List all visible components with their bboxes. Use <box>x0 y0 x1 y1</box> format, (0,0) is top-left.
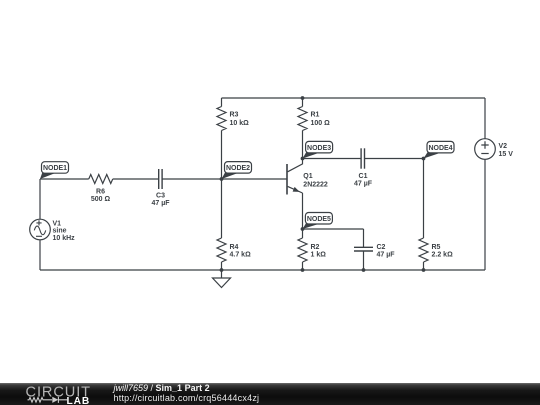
svg-text:2.2 kΩ: 2.2 kΩ <box>432 252 454 259</box>
junction node2 <box>220 177 224 181</box>
wire node3 to C1 <box>303 158 362 160</box>
svg-text:500 Ω: 500 Ω <box>91 196 111 203</box>
node NODE1 box <box>42 162 69 174</box>
svg-text:R2: R2 <box>311 244 320 251</box>
wire input node1 vertical to V1 <box>39 179 41 219</box>
svg-text:4.7 kΩ: 4.7 kΩ <box>230 252 252 259</box>
wire node4 down to R5 <box>423 159 425 239</box>
svg-text:47 µF: 47 µF <box>354 181 373 188</box>
logo resistor squiggle <box>28 398 53 403</box>
logo diode <box>52 397 58 403</box>
source V1 sine symbol <box>34 226 45 235</box>
resistor R4 <box>217 238 226 262</box>
node NODE2 box <box>225 162 252 174</box>
wire C3 to node2 <box>162 178 221 180</box>
junction node3 <box>301 157 305 161</box>
svg-text:R6: R6 <box>96 188 105 195</box>
junction bottom rail / R4 / ground <box>220 268 224 272</box>
node NODE4 flag pointer <box>424 151 443 158</box>
wire V1 bottom to rail <box>39 240 41 270</box>
resistor R3 <box>217 107 226 131</box>
ground symbol <box>213 270 231 288</box>
wire C1 to node4 <box>365 158 424 160</box>
node NODE3 box <box>306 141 333 153</box>
svg-text:100 Ω: 100 Ω <box>311 120 331 127</box>
wire node2 to Q1 base <box>222 178 288 180</box>
junction bottom rail / C2 <box>362 268 366 272</box>
source V1 plus sign <box>36 220 41 225</box>
junction node4 <box>422 157 426 161</box>
wire R3 bottom to node2 <box>221 131 223 180</box>
wire R6 to C3 <box>113 178 159 180</box>
capacitor C3 <box>159 169 162 189</box>
svg-text:LAB: LAB <box>67 396 91 405</box>
source V1 circle <box>30 219 51 240</box>
wire node2 down to R4 <box>221 179 223 238</box>
wire R4 bottom stub <box>221 262 223 270</box>
wire node5 down to R2 <box>302 229 304 238</box>
wire C2 top stub <box>363 229 365 247</box>
svg-text:1 kΩ: 1 kΩ <box>311 252 327 259</box>
svg-text:47 µF: 47 µF <box>151 200 170 207</box>
resistor R6 <box>89 175 113 184</box>
wire C2 bottom stub <box>363 251 365 270</box>
wire R3 top stub <box>221 98 223 107</box>
wire emitter vertical to node5 <box>302 193 304 229</box>
transistor Q1 emitter lead <box>288 186 303 193</box>
node NODE5 box <box>305 213 332 225</box>
transistor Q1 collector lead <box>288 159 303 172</box>
wire node5 to C2 <box>303 228 364 230</box>
svg-text:V2: V2 <box>499 143 508 150</box>
transistor Q1 base bar <box>286 164 288 195</box>
svg-text:NODE4: NODE4 <box>428 145 452 152</box>
wire bottom rail <box>40 269 485 271</box>
wire R2 bottom stub <box>302 262 304 270</box>
node NODE1 flag pointer <box>40 171 57 179</box>
CircuitLab logo <box>0 383 110 405</box>
svg-text:47 µF: 47 µF <box>377 252 396 259</box>
node NODE2 flag pointer <box>222 171 241 179</box>
source V2 plus sign <box>481 141 488 148</box>
wire R5 bottom stub <box>423 262 425 270</box>
svg-text:NODE5: NODE5 <box>307 216 331 223</box>
svg-text:NODE2: NODE2 <box>226 165 250 172</box>
svg-text:R1: R1 <box>311 112 320 119</box>
wire R1 top stub <box>302 98 304 107</box>
wire right branch lower (V2 to bottom rail) <box>484 159 486 270</box>
wire R1 bottom to node3 <box>302 131 304 159</box>
wire top rail <box>222 97 486 99</box>
source V2 circle <box>475 139 496 160</box>
junction top rail / R1 <box>301 96 305 100</box>
junction bottom rail / R2 <box>301 268 305 272</box>
svg-text:Q1: Q1 <box>303 173 312 180</box>
svg-text:15 V: 15 V <box>499 151 514 158</box>
resistor R1 <box>298 107 307 131</box>
wire node1 to R6 <box>40 178 89 180</box>
junction node5 <box>301 227 305 231</box>
node NODE5 flag pointer <box>303 222 321 229</box>
svg-text:V1: V1 <box>53 220 62 227</box>
svg-text:C3: C3 <box>156 193 165 200</box>
svg-text:C1: C1 <box>359 173 368 180</box>
resistor R2 <box>298 238 307 262</box>
svg-text:2N2222: 2N2222 <box>303 182 328 189</box>
source V2 minus sign <box>481 153 488 155</box>
svg-text:sine: sine <box>53 228 67 235</box>
svg-text:R5: R5 <box>432 244 441 251</box>
transistor Q1 emitter arrow <box>293 187 300 192</box>
svg-text:R3: R3 <box>230 112 239 119</box>
svg-text:10 kΩ: 10 kΩ <box>230 120 250 127</box>
wire right branch upper (to V2) <box>484 98 486 139</box>
source V1 minus sign <box>36 235 42 237</box>
node NODE3 flag pointer <box>303 151 322 158</box>
capacitor C2 <box>354 247 373 251</box>
svg-text:R4: R4 <box>230 244 239 251</box>
junction bottom rail / R5 <box>422 268 426 272</box>
capacitor C1 <box>361 148 364 168</box>
svg-text:10 kHz: 10 kHz <box>53 235 76 242</box>
resistor R5 <box>419 238 428 262</box>
node NODE4 box <box>427 141 454 153</box>
svg-text:C2: C2 <box>377 244 386 251</box>
svg-text:NODE3: NODE3 <box>307 145 331 152</box>
svg-text:NODE1: NODE1 <box>43 165 67 172</box>
